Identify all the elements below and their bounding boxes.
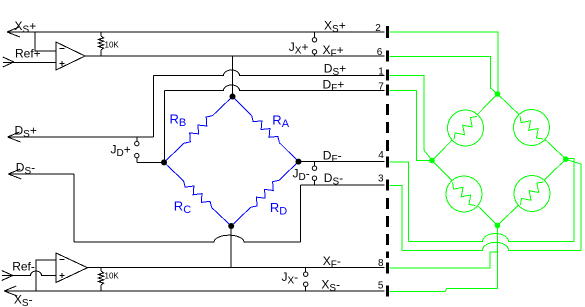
- svg-text:RB: RB: [170, 112, 187, 130]
- svg-text:JD+: JD+: [111, 143, 131, 160]
- jumper JX- pads: [282, 268, 308, 291]
- junction gauge bridge bottom node: [495, 223, 501, 229]
- wire XF+ drop to bridge top node: [232, 56, 234, 97]
- junction gauge bridge top node: [495, 91, 501, 97]
- wire DF- to pin 4: [299, 161, 385, 163]
- junction bridge bottom node: [228, 223, 234, 229]
- junction gauge bridge right node: [563, 156, 569, 162]
- label XS+ at pin 2: [324, 19, 381, 36]
- jumper JD+ pads: [111, 137, 165, 162]
- wire DS- riser to pin 3: [300, 185, 302, 242]
- wire XS+ to U1 inverting input: [35, 32, 56, 51]
- node Ref+ off-page arrow: [3, 47, 41, 68]
- svg-text:JD-: JD-: [293, 167, 310, 184]
- wire U1 output XF+ line: [85, 55, 385, 57]
- wire U2 inverting input feedback: [36, 260, 56, 291]
- wire DS- lower run with crossover hop: [74, 235, 301, 242]
- label DS+ at pin 1: [324, 62, 384, 79]
- connector boundary dashed line: [386, 26, 389, 297]
- svg-text:8: 8: [378, 258, 384, 269]
- svg-text:Ref+: Ref+: [15, 47, 41, 61]
- wire U2 output XF- line: [88, 267, 385, 269]
- label DF- at pin 4: [323, 149, 385, 166]
- node Ref- off-page arrow: [2, 260, 35, 281]
- label XF- at pin 8: [323, 254, 384, 271]
- node DS+ off-page arrow: [8, 124, 37, 143]
- svg-text:XS-: XS-: [321, 278, 340, 295]
- svg-text:DF+: DF+: [323, 78, 345, 95]
- jumper JX+ pads: [289, 32, 317, 57]
- label DF+ at pin 7: [323, 78, 385, 95]
- svg-text:2: 2: [375, 23, 381, 34]
- wire DS- green from pin 3: [389, 160, 581, 251]
- svg-text:10K: 10K: [105, 41, 120, 50]
- strain gauge bottom-left: [432, 161, 497, 226]
- wire XS- rail: [4, 290, 384, 292]
- op-amp U1: [56, 42, 85, 70]
- junction bridge right node: [296, 159, 302, 165]
- svg-text:JX+: JX+: [289, 40, 309, 57]
- svg-text:XS+: XS+: [15, 19, 37, 36]
- op-amp U2: [56, 253, 88, 283]
- label DS- at pin 3: [324, 171, 384, 188]
- svg-text:DF-: DF-: [323, 149, 342, 166]
- resistor RA: [233, 97, 299, 162]
- node XS+ off-page arrow: [7, 19, 36, 37]
- resistor RD: [231, 162, 298, 226]
- wire green bottom riser to gauge bridge: [496, 226, 498, 289]
- junction bridge top node: [230, 94, 236, 100]
- svg-text:RD: RD: [270, 200, 287, 218]
- wire DS+ to pin 1 with crossover hop: [154, 70, 385, 76]
- resistor 10K lower: [98, 268, 119, 291]
- svg-text:6: 6: [377, 47, 383, 58]
- svg-text:XF+: XF+: [323, 43, 344, 60]
- svg-text:3: 3: [378, 173, 384, 184]
- wire DS+ rail: [8, 76, 154, 138]
- junction gauge bridge left node: [429, 158, 435, 164]
- svg-text:Ref-: Ref-: [12, 260, 35, 274]
- node DS- off-page arrow: [8, 161, 35, 180]
- svg-text:RC: RC: [174, 199, 191, 217]
- wire DS+ green from pin 1: [389, 76, 432, 161]
- svg-text:5: 5: [378, 281, 384, 292]
- wire XS+ green from pin 2: [389, 32, 498, 94]
- strain gauge bottom-right: [497, 159, 565, 225]
- svg-text:RA: RA: [272, 113, 289, 131]
- wire DF- green from pin 4: [389, 159, 574, 242]
- jumper JD- pads: [293, 162, 317, 185]
- svg-text:7: 7: [378, 82, 384, 93]
- wire Ref+ to U1 non-inverting input: [3, 62, 56, 64]
- svg-text:DS-: DS-: [16, 161, 35, 178]
- wire DS- to pin 3: [301, 184, 385, 186]
- wire XS+ rail: [7, 31, 385, 33]
- wire XF- green from pin 8: [389, 252, 497, 268]
- wire Ref- to U2 non-inverting input with hop: [2, 271, 56, 276]
- resistor RC: [164, 162, 231, 226]
- wire DF+ drop to bridge left node: [164, 91, 166, 163]
- resistor 10K upper: [98, 32, 119, 56]
- svg-text:1: 1: [378, 66, 384, 77]
- wire DF+ green from pin 7: [389, 91, 432, 161]
- junction bridge left node: [161, 159, 167, 165]
- strain gauge top-right: [498, 94, 566, 159]
- svg-text:JX-: JX-: [282, 270, 299, 287]
- label XS- at pin 5: [321, 278, 384, 295]
- strain gauge top-left: [432, 94, 498, 161]
- svg-text:XS-: XS-: [14, 293, 33, 307]
- wire DF+ to pin 7 with crossover hop: [165, 85, 385, 91]
- svg-text:10K: 10K: [105, 272, 120, 281]
- wire DS- rail: [8, 174, 74, 242]
- svg-text:DS+: DS+: [15, 124, 37, 141]
- svg-text:4: 4: [378, 150, 384, 161]
- resistor RB: [164, 97, 233, 163]
- wire XF+ green from pin 6: [389, 57, 497, 95]
- wire bridge bottom to XF- line: [230, 226, 232, 268]
- label XF+ at pin 6: [323, 43, 383, 60]
- node XS- off-page arrow: [4, 286, 32, 307]
- wire XS- green from pin 5: [389, 288, 497, 291]
- svg-text:XS+: XS+: [324, 19, 346, 36]
